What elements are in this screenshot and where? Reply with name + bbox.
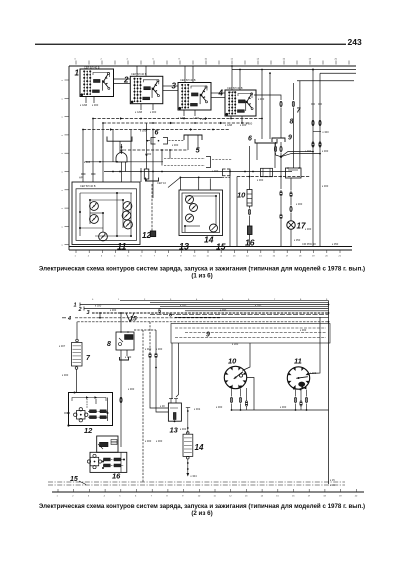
svg-text:16: 16 <box>245 238 255 248</box>
diagram 1 bottom bus line B <box>69 249 352 251</box>
cylinder 16 <box>248 226 253 235</box>
wire drop x143 dashed <box>142 330 144 482</box>
svg-text:к 300: к 300 <box>305 227 312 231</box>
wire feeder box13 <box>180 177 231 191</box>
svg-text:к 300: к 300 <box>145 152 152 156</box>
svg-text:к 350: к 350 <box>294 238 301 242</box>
svg-text:к 300: к 300 <box>84 160 91 164</box>
svg-text:к 300: к 300 <box>220 308 227 312</box>
ground bus tags <box>330 478 335 487</box>
diagram 1 left ruler ticks <box>62 80 69 247</box>
svg-text:13: 13 <box>170 426 179 435</box>
svg-text:к 300: к 300 <box>156 347 163 351</box>
svg-text:12: 12 <box>84 426 93 435</box>
wire below block 1 <box>80 97 99 108</box>
wire arrow marks <box>110 117 223 131</box>
svg-text:(2 из 6): (2 из 6) <box>191 510 212 517</box>
svg-text:к 300: к 300 <box>230 90 237 94</box>
wire bus stack <box>120 301 329 318</box>
wire drop M10 <box>236 177 238 247</box>
svg-text:к 300: к 300 <box>180 427 187 431</box>
wire below lamp 17 <box>291 229 301 246</box>
wire top bus 4 <box>297 80 354 82</box>
wire below block 2 <box>135 104 157 114</box>
connector block 4 <box>225 90 256 116</box>
connector capsule C <box>223 169 231 176</box>
diagram 1 frame left border <box>68 66 70 250</box>
wire riser box2 <box>137 66 146 76</box>
svg-text:СЕР ВЛ 40 В: СЕР ВЛ 40 В <box>84 65 100 69</box>
gauge block 13 <box>179 190 223 236</box>
ignition relay box <box>286 167 302 178</box>
wire drop x150 <box>149 322 169 408</box>
wire drop x121 upper <box>120 312 122 332</box>
svg-text:12: 12 <box>142 231 151 240</box>
diagram 1 bottom ruler ticks <box>75 250 342 258</box>
svg-text:Электрическая схема контуров с: Электрическая схема контуров систем заря… <box>39 266 365 273</box>
svg-text:к 300: к 300 <box>300 328 307 332</box>
svg-text:к 16: к 16 <box>330 483 335 487</box>
wire gauge bus <box>232 409 329 411</box>
wire below sender <box>248 206 250 226</box>
svg-text:243: 243 <box>348 37 362 47</box>
wire dashed branch y330 <box>134 329 156 331</box>
svg-text:СЕР ВЛ 40 В: СЕР ВЛ 40 В <box>80 184 96 188</box>
wire 15 merge <box>77 313 328 322</box>
wire column B lower <box>290 178 292 221</box>
module 16 diag2 <box>87 436 126 472</box>
svg-text:к 300: к 300 <box>255 304 262 308</box>
wire drop 12 <box>151 184 153 231</box>
svg-text:к 300: к 300 <box>92 103 99 107</box>
svg-text:к 300: к 300 <box>216 405 223 409</box>
svg-text:1: 1 <box>75 69 80 78</box>
resistor 14 diag2 <box>183 407 201 478</box>
svg-text:к 300: к 300 <box>257 178 264 182</box>
wire 4 horizontal <box>62 317 220 319</box>
label 15 diag2 bottom <box>70 476 86 485</box>
terminal T marks <box>79 174 96 180</box>
wire 2 horizontal <box>84 307 329 323</box>
svg-text:СЕР ВЛ 40 В: СЕР ВЛ 40 В <box>227 86 243 90</box>
svg-text:к 300: к 300 <box>128 387 135 391</box>
svg-text:к 300: к 300 <box>120 148 127 152</box>
wire tags diagram 1 <box>84 90 329 231</box>
svg-text:к 300: к 300 <box>232 342 239 346</box>
diagram 2 top ruler <box>92 299 328 301</box>
horn dome <box>116 144 127 162</box>
wire run H4 <box>128 149 188 151</box>
svg-text:11: 11 <box>294 357 302 366</box>
svg-text:к 30: к 30 <box>160 404 165 408</box>
svg-text:к 300: к 300 <box>95 304 102 308</box>
wire riser box4 <box>231 65 241 90</box>
gauge 10 terminals <box>216 388 248 411</box>
svg-text:16: 16 <box>112 472 121 481</box>
wire drop gauge11 <box>310 318 321 374</box>
gauge 11 <box>287 367 309 391</box>
wire column C <box>299 81 301 168</box>
wire drop x172 <box>171 343 173 399</box>
wire above 7 <box>76 322 78 339</box>
svg-text:к 307: к 307 <box>59 344 66 348</box>
wire drop L4 <box>112 130 114 162</box>
svg-text:к 300: к 300 <box>323 130 330 134</box>
wire to sender <box>249 146 251 190</box>
svg-text:10: 10 <box>228 357 237 366</box>
resistor block <box>144 123 149 182</box>
svg-text:СЕР 16: СЕР 16 <box>157 181 166 185</box>
distributor 12 <box>64 392 113 427</box>
fuel pump 12 <box>150 231 155 237</box>
diagram 1 frame top border <box>69 65 356 67</box>
wire drop gauge10 <box>243 343 251 371</box>
diagram 1 top ruler ticks <box>75 59 350 65</box>
svg-text:к 300: к 300 <box>296 202 303 206</box>
wire drop L6 <box>130 130 132 183</box>
svg-text:2: 2 <box>123 76 129 85</box>
wire dashed row y158 <box>164 157 232 168</box>
wire 3 horizontal <box>92 312 329 314</box>
svg-text:8: 8 <box>290 119 294 126</box>
wire drop L1 <box>82 130 84 183</box>
wire 1 horizontal <box>80 303 329 307</box>
diagram 1 bottom bus line A <box>69 246 352 248</box>
diagram 2 right border <box>328 301 330 485</box>
svg-text:к 300: к 300 <box>322 184 329 188</box>
svg-text:СМ РИС 30: СМ РИС 30 <box>302 242 316 246</box>
wire drop M3 <box>169 150 171 159</box>
instrument cluster 11 <box>72 182 140 245</box>
svg-text:к 300: к 300 <box>258 97 265 101</box>
wire link box2-box3 <box>163 86 178 91</box>
svg-text:10: 10 <box>237 191 246 200</box>
svg-text:к 300: к 300 <box>156 439 163 443</box>
svg-text:к 300: к 300 <box>125 355 132 359</box>
wire run H1 <box>92 118 263 120</box>
svg-text:6: 6 <box>248 136 252 143</box>
svg-text:к САВ: к САВ <box>225 123 232 127</box>
svg-text:14: 14 <box>195 443 204 452</box>
wire diagonal feeder <box>157 177 180 187</box>
gauge 11 terminals <box>280 390 308 411</box>
ground bus line B <box>48 484 345 486</box>
svg-text:4: 4 <box>67 316 71 322</box>
svg-text:к 15: к 15 <box>330 478 335 482</box>
connector pair mid <box>146 138 184 145</box>
wire link box1-box2 <box>114 79 131 84</box>
wire run H5b <box>85 161 163 163</box>
svg-text:Электрическая схема контуров с: Электрическая схема контуров систем заря… <box>39 503 365 510</box>
wire run H3 <box>82 129 230 131</box>
wire drop resistor <box>140 168 142 182</box>
svg-text:2: 2 <box>78 307 82 313</box>
svg-text:к 300: к 300 <box>140 129 147 133</box>
svg-text:3: 3 <box>87 310 90 316</box>
wire right v3 <box>311 69 315 247</box>
wire drop coil <box>122 162 126 182</box>
wire tags above boxes <box>84 65 243 90</box>
svg-text:к 300: к 300 <box>280 405 287 409</box>
wire diagonal pair <box>281 151 321 157</box>
svg-text:к 300: к 300 <box>212 169 219 173</box>
sensor 13 diag2 <box>160 399 181 423</box>
wire drop M1 <box>152 130 154 199</box>
svg-text:9: 9 <box>206 332 210 339</box>
ballast resistor 7 <box>59 339 82 369</box>
connector block 3 <box>178 83 211 111</box>
wire below block 3 <box>178 110 200 120</box>
wire drop L3 <box>102 123 104 182</box>
svg-text:к 300: к 300 <box>310 371 317 375</box>
lamp 17 <box>287 221 295 229</box>
svg-text:к 304: к 304 <box>191 474 198 478</box>
svg-text:6: 6 <box>155 130 159 137</box>
svg-text:к 300: к 300 <box>62 373 69 377</box>
svg-text:к 300: к 300 <box>145 439 152 443</box>
wire drop to fork B left <box>261 69 263 139</box>
wire drop x178 <box>176 343 179 397</box>
svg-text:1: 1 <box>74 303 77 309</box>
wire column A top <box>254 95 282 138</box>
wire fork B stems <box>257 143 275 168</box>
wire top bus 3 <box>320 72 356 74</box>
wire link box3-box4 <box>211 93 225 98</box>
wire top bus 2 <box>232 69 356 71</box>
wire run H2 <box>102 122 250 124</box>
wire below 7 <box>76 370 78 393</box>
wire run H8 <box>237 176 310 178</box>
wire below 16 <box>249 235 251 247</box>
wire column A lower <box>280 157 282 247</box>
svg-text:к 300: к 300 <box>180 304 187 308</box>
wire junction <box>276 153 283 158</box>
svg-text:к САВ: к САВ <box>135 110 142 114</box>
wire drop M2 <box>161 150 163 166</box>
svg-text:к 302: к 302 <box>194 407 201 411</box>
wire column B top <box>292 83 294 168</box>
ground bus line A <box>48 481 345 483</box>
svg-text:к 300: к 300 <box>110 308 117 312</box>
page header rule <box>35 43 346 45</box>
svg-text:к 300: к 300 <box>145 347 152 351</box>
svg-text:9: 9 <box>288 135 292 142</box>
wire tags diagram 2 <box>62 304 317 444</box>
svg-text:СЕР ВЛ 40 В: СЕР ВЛ 40 В <box>131 72 147 76</box>
diagram 2 bottom ruler <box>52 489 364 498</box>
svg-text:к 300: к 300 <box>200 117 207 121</box>
svg-text:СЕР ВЛ 40 В: СЕР ВЛ 40 В <box>180 78 196 82</box>
svg-text:к 300: к 300 <box>246 122 253 126</box>
wire below block 4 <box>225 116 247 127</box>
harness box 9 <box>171 324 330 344</box>
connector block 2 <box>130 76 163 103</box>
svg-text:НР: НР <box>79 176 83 180</box>
svg-text:8: 8 <box>107 341 111 348</box>
connector bracket left <box>107 137 132 154</box>
wire right v4 <box>318 73 322 246</box>
connector block 1 <box>80 69 114 97</box>
wire drop M9 <box>229 170 231 247</box>
wire drop x156 <box>155 330 169 412</box>
wire drop x121 lower <box>120 350 129 447</box>
svg-text:к 300: к 300 <box>193 116 200 120</box>
wire drop L2 <box>92 119 94 183</box>
wire stub x100 diag2 <box>99 312 101 319</box>
wire drop to fork B right <box>269 72 271 139</box>
wire gauge10 right tie <box>247 378 254 411</box>
wire k300 branch <box>313 130 329 134</box>
wire riser box3 <box>185 66 193 82</box>
connector fork B <box>255 139 277 143</box>
svg-text:к САВ: к САВ <box>80 103 87 107</box>
relay 8 diag2 <box>116 331 134 350</box>
connector fork 12 <box>146 178 159 182</box>
svg-text:(1 из 6): (1 из 6) <box>191 273 212 280</box>
connector fork D <box>272 138 285 155</box>
small capsule <box>261 168 273 176</box>
bus annotation right <box>302 242 339 246</box>
wire run H7 <box>104 171 292 173</box>
svg-text:к 350: к 350 <box>332 242 339 246</box>
gauge 10 <box>224 366 246 388</box>
sender unit 10 <box>247 190 252 207</box>
svg-text:к 300: к 300 <box>305 149 312 153</box>
svg-text:14: 14 <box>204 235 214 245</box>
svg-text:к 300: к 300 <box>322 149 329 153</box>
svg-text:к 300: к 300 <box>172 143 179 147</box>
svg-text:к 300: к 300 <box>150 110 157 114</box>
svg-text:15: 15 <box>130 315 138 322</box>
connector fork A <box>184 135 202 150</box>
